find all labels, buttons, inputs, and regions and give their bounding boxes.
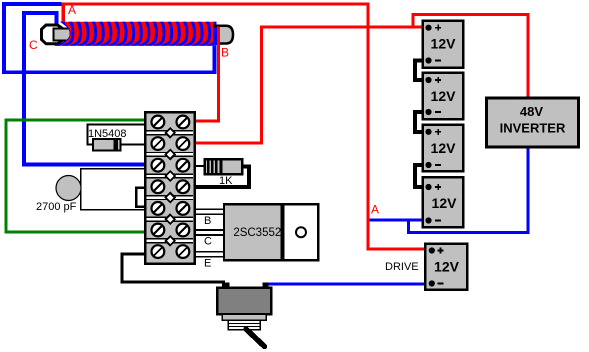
wire black diode loop row1-row2 (88, 125, 146, 145)
svg-text:12V: 12V (432, 195, 458, 211)
transistor 2SC3552 package (224, 204, 318, 260)
wire red over right cap (coil B) (217, 27, 220, 50)
wire red A drop to coil (62, 4, 65, 23)
switch tabs (222, 282, 230, 288)
wire blue outer coil loop (4, 4, 215, 72)
svg-text:DRIVE: DRIVE (385, 261, 419, 273)
svg-text:48V: 48V (520, 104, 543, 119)
wire black battery2- to battery3+ (415, 112, 429, 132)
svg-text:E: E (204, 258, 211, 270)
svg-text:C: C (29, 38, 38, 52)
svg-text:12V: 12V (431, 36, 457, 52)
terminal strip separators and diamonds (146, 128, 193, 245)
coil rod left section (54, 28, 71, 40)
wire blue switch to DRIVE - (268, 283, 432, 286)
battery 2 12V (423, 73, 463, 120)
wire black bracket row4-row5 (136, 188, 145, 207)
svg-text:B: B (204, 215, 211, 227)
wire black battery3- to battery4+ (415, 165, 429, 187)
svg-text:C: C (204, 236, 212, 248)
wire red top from coil A (62, 2, 370, 5)
wire black 1K resistor to row4 (195, 167, 249, 188)
svg-text:2SC3552: 2SC3552 (233, 227, 281, 239)
switch lever (246, 329, 265, 347)
wire red coil B to terminal row1 (195, 30, 219, 121)
diode cathode band (114, 139, 119, 151)
wire red right vertical to node A / DRIVE+ (368, 4, 432, 249)
wire red terminal row2 to battery1 + (195, 27, 429, 143)
wire black row3 to 1K resistor (195, 165, 205, 167)
wire black capacitor loop row3-row5 (81, 169, 146, 210)
coil winding (54, 21, 218, 47)
svg-text:12V: 12V (434, 258, 460, 274)
resistor 1K body (205, 159, 243, 174)
wire blue battery4 - to node A (370, 219, 429, 222)
wire blue over right cap (213, 27, 217, 45)
svg-text:12V: 12V (431, 140, 457, 156)
svg-text:B: B (221, 46, 229, 60)
svg-text:2700 pF: 2700 pF (36, 201, 77, 213)
svg-text:INVERTER: INVERTER (500, 121, 566, 136)
svg-text:1K: 1K (219, 175, 233, 187)
battery 1 12V (423, 21, 463, 68)
resistor stripes (207, 160, 210, 173)
switch body (217, 288, 271, 315)
transistor lead B (195, 209, 224, 214)
switch bushing (228, 320, 260, 330)
capacitor 2700pF (56, 176, 81, 201)
battery 4 12V (423, 177, 463, 227)
diode 1N5408 body (93, 139, 121, 151)
transistor mounting hole (296, 227, 306, 237)
battery 3 12V (423, 125, 463, 172)
wire blue inner coil loop to terminal row3 (24, 13, 145, 165)
transistor lead E (195, 252, 224, 257)
terminal strip body (145, 112, 195, 264)
wire green terminal row1 to row6 (6, 120, 145, 232)
svg-text:A: A (68, 3, 76, 17)
svg-text:A: A (371, 203, 379, 217)
wire red battery1 + to inverter top (413, 15, 528, 99)
coil right end cap (215, 26, 234, 44)
transistor lead C (195, 230, 224, 235)
wire blue battery4 - branch to inverter bottom (409, 147, 529, 233)
terminal screws (152, 116, 190, 258)
wire black row7 to switch (122, 254, 225, 282)
svg-text:1N5408: 1N5408 (88, 128, 127, 140)
svg-text:12V: 12V (431, 88, 457, 104)
battery 5 DRIVE 12V (425, 244, 467, 290)
coil left end cap (42, 25, 63, 44)
wire black battery1- to battery2+ (415, 61, 429, 81)
inverter 48V box (486, 98, 578, 147)
switch neck (222, 314, 266, 320)
